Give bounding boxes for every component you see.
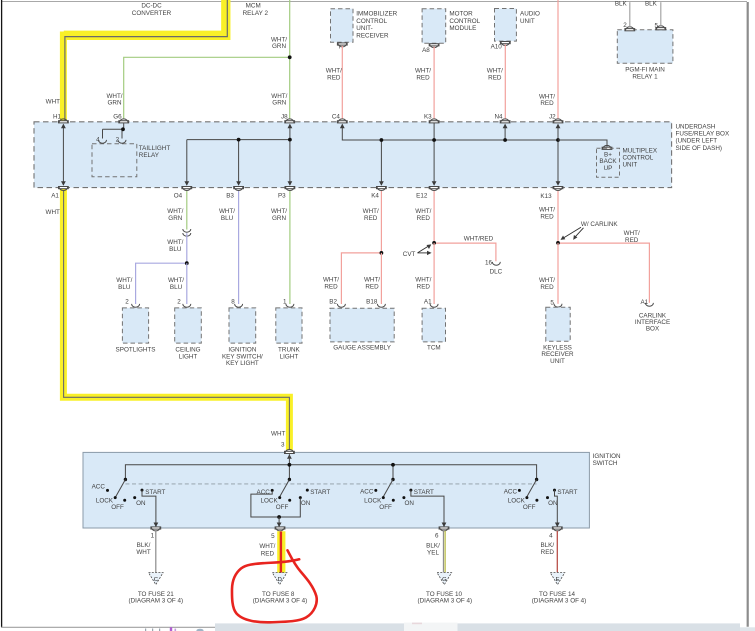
- wire WHT/RED motor control module A8 to K3: [433, 47, 435, 119]
- wire WHT/RED immobilizer pin 7 to C4: [341, 46, 343, 119]
- svg-text:RED: RED: [364, 215, 378, 222]
- svg-text:ON: ON: [136, 500, 146, 507]
- svg-text:CONVERTER: CONVERTER: [132, 10, 172, 17]
- junction K3: [432, 138, 436, 142]
- svg-text:RED: RED: [541, 549, 555, 556]
- svg-text:GRN: GRN: [272, 215, 286, 222]
- label WHT/GRN at J8: [271, 93, 287, 107]
- wire G6 to taillight relay: [103, 123, 124, 138]
- pin 5 of ignition switch: [275, 527, 285, 531]
- wire branch to O4 and B3 inside fuse box: [187, 140, 290, 185]
- wire WHT/RED branch to carlink interface box: [558, 243, 649, 303]
- svg-text:BLK/: BLK/: [426, 543, 440, 550]
- svg-text:SIDE OF DASH): SIDE OF DASH): [676, 145, 723, 152]
- switch pole 2 ACC-ON link wire with output tap: [251, 491, 300, 517]
- svg-text:AUDIO: AUDIO: [520, 11, 540, 18]
- switch pole 1 output to pin 1: [142, 490, 156, 526]
- svg-text:LIGHT: LIGHT: [179, 353, 198, 360]
- svg-text:RED: RED: [540, 284, 554, 291]
- svg-text:ACC: ACC: [360, 489, 374, 496]
- junction G6/taillight relay: [121, 127, 125, 131]
- junction E12 / DLC branch: [432, 241, 436, 245]
- wire H1 to A1 inside fuse box: [62, 125, 64, 186]
- switch pole 4: [504, 478, 578, 511]
- switch pole 3: [360, 478, 434, 511]
- svg-text:ON: ON: [548, 500, 558, 507]
- svg-text:BLK/: BLK/: [137, 542, 151, 549]
- svg-text:RED: RED: [540, 100, 554, 107]
- svg-text:UNIT: UNIT: [550, 358, 565, 365]
- svg-text:5: 5: [271, 533, 275, 540]
- svg-text:W/ CARLINK: W/ CARLINK: [581, 221, 619, 228]
- svg-text:RELAY 1: RELAY 1: [632, 74, 658, 81]
- component U3 MOTOR CONTROL MODULE: [422, 9, 446, 44]
- svg-text:16: 16: [485, 259, 493, 266]
- junction K4: [380, 138, 384, 142]
- svg-text:RELAY 2: RELAY 2: [243, 10, 269, 17]
- svg-text:BLU: BLU: [170, 284, 183, 291]
- svg-text:BLU: BLU: [169, 246, 182, 253]
- svg-text:GAUGE ASSEMBLY: GAUGE ASSEMBLY: [333, 345, 391, 352]
- svg-text:A8: A8: [422, 47, 430, 54]
- component U4 AUDIO UNIT: [495, 9, 517, 42]
- wire J2 to K13 inside fuse box: [557, 125, 559, 186]
- wire WHT/BLU to ceiling light: [186, 263, 188, 304]
- svg-text:START: START: [414, 489, 434, 496]
- svg-text:WHT/: WHT/: [259, 543, 275, 550]
- junction K4 branch: [380, 251, 384, 255]
- svg-text:E12: E12: [416, 192, 428, 199]
- junction WHT/BLU: [185, 261, 189, 265]
- wire BLK at PGM-FI relay pin 2: [629, 2, 631, 27]
- svg-text:O4: O4: [174, 193, 183, 200]
- svg-text:BLK/: BLK/: [540, 542, 554, 549]
- connector E to fuse 14: [550, 573, 565, 585]
- wire WHT/GRN from P3 to trunk light: [289, 191, 291, 304]
- svg-text:K13: K13: [540, 193, 552, 200]
- svg-text:P3: P3: [278, 193, 286, 200]
- component RLY1 PGM-FI MAIN RELAY 1: [617, 30, 673, 64]
- svg-text:(DIAGRAM 3 OF 4): (DIAGRAM 3 OF 4): [418, 598, 473, 605]
- svg-text:RED: RED: [416, 74, 430, 81]
- svg-text:UP: UP: [604, 165, 613, 172]
- svg-text:ACC: ACC: [92, 484, 106, 491]
- svg-text:KEY LIGHT: KEY LIGHT: [226, 360, 259, 367]
- junction K13 / carlink branch: [556, 241, 560, 245]
- junction at B3 drop: [237, 138, 241, 142]
- svg-text:DC-DC: DC-DC: [141, 3, 162, 10]
- svg-text:(UNDER LEFT: (UNDER LEFT: [676, 138, 718, 145]
- switch pole 3 output to pin 6: [411, 490, 444, 526]
- svg-text:K4: K4: [371, 192, 379, 199]
- svg-text:BLU: BLU: [221, 215, 234, 222]
- wire WHT/BLU branch to spotlights: [136, 263, 187, 304]
- svg-text:CONTROL: CONTROL: [356, 18, 387, 25]
- ignition switch mechanical link (dashed): [125, 483, 536, 485]
- svg-text:(DIAGRAM 3 OF 4): (DIAGRAM 3 OF 4): [253, 598, 308, 605]
- svg-text:B18: B18: [366, 298, 378, 305]
- svg-text:1: 1: [151, 532, 155, 539]
- junction on WHT/GRN at MCM feed: [288, 55, 292, 59]
- svg-text:B3: B3: [226, 193, 234, 200]
- svg-text:IMMOBILIZER: IMMOBILIZER: [356, 11, 397, 18]
- svg-text:OFF: OFF: [379, 504, 392, 511]
- svg-text:GRN: GRN: [272, 100, 286, 107]
- svg-text:E: E: [556, 577, 560, 583]
- svg-text:MOTOR: MOTOR: [449, 11, 473, 18]
- svg-text:WHT/RED: WHT/RED: [464, 235, 494, 242]
- junction J2: [556, 138, 560, 142]
- svg-text:DLC: DLC: [490, 268, 503, 275]
- svg-text:C: C: [154, 577, 158, 583]
- svg-text:MULTIPLEX: MULTIPLEX: [623, 148, 658, 155]
- switch pole 4 output to pin 4: [555, 490, 558, 526]
- component B+ BACK UP (multiplex control unit): [597, 148, 620, 177]
- connector C to fuse 21: [149, 573, 164, 585]
- svg-text:J2: J2: [549, 113, 556, 120]
- wire WHT/RED from K4: [380, 191, 382, 253]
- svg-text:WHT: WHT: [271, 430, 285, 437]
- svg-text:ON: ON: [301, 500, 311, 507]
- label MCM RELAY 2: [243, 3, 269, 17]
- svg-text:RECEIVER: RECEIVER: [356, 32, 389, 39]
- svg-text:UNIT: UNIT: [623, 162, 638, 169]
- svg-text:TCM: TCM: [427, 345, 441, 352]
- svg-text:GRN: GRN: [168, 215, 182, 222]
- svg-text:UNIT: UNIT: [520, 18, 535, 25]
- wire WHT/RED from E12: [433, 191, 435, 243]
- svg-text:ACC: ACC: [504, 489, 518, 496]
- svg-text:RED: RED: [625, 237, 639, 244]
- svg-text:5: 5: [550, 300, 554, 307]
- svg-text:BLU: BLU: [118, 284, 131, 291]
- label MULTIPLEX CONTROL UNIT: [623, 148, 658, 169]
- connector G to fuse 10: [437, 573, 452, 585]
- svg-text:WHT: WHT: [46, 99, 60, 106]
- svg-text:START: START: [557, 489, 577, 496]
- pin 6 of ignition switch: [439, 527, 449, 531]
- wire WHT/RED to gauge B18: [380, 253, 382, 304]
- svg-text:RED: RED: [488, 74, 502, 81]
- wire WHT/GRN from O4: [186, 191, 188, 230]
- label DC-DC CONVERTER: [132, 3, 172, 17]
- svg-text:LIGHT: LIGHT: [280, 353, 299, 360]
- svg-text:A1: A1: [51, 193, 59, 200]
- svg-text:CVT: CVT: [403, 251, 416, 258]
- svg-text:MCM: MCM: [246, 3, 261, 10]
- wire WHT/GRN from MCM relay 2: [289, 0, 291, 119]
- svg-text:GRN: GRN: [272, 43, 286, 50]
- svg-text:ON: ON: [405, 500, 415, 507]
- svg-text:RED: RED: [417, 215, 431, 222]
- svg-text:TAILLIGHT: TAILLIGHT: [139, 145, 171, 152]
- svg-text:RED: RED: [365, 284, 379, 291]
- svg-text:4: 4: [549, 533, 553, 540]
- svg-text:RED: RED: [417, 284, 431, 291]
- svg-text:A1: A1: [640, 299, 648, 306]
- svg-text:GRN: GRN: [108, 100, 122, 107]
- svg-text:A1: A1: [424, 298, 432, 305]
- svg-text:2: 2: [125, 298, 129, 305]
- svg-text:RED: RED: [540, 214, 554, 221]
- wire WHT from A1 to ignition switch (highlighted): [64, 191, 290, 449]
- svg-text:N4: N4: [494, 113, 503, 120]
- svg-text:BOX: BOX: [646, 325, 660, 332]
- component U2 IMMOBILIZER CONTROL UNIT-RECEIVER: [331, 9, 354, 43]
- label CARLINK INTERFACE BOX: [635, 312, 670, 332]
- svg-text:RED: RED: [327, 74, 341, 81]
- wire WHT/RED branch to DLC pin 16: [434, 243, 496, 261]
- highlight: yellow marker on WHT/RED wire to fuse 8: [277, 531, 285, 573]
- component UNDERDASH FUSE/RELAY BOX: [34, 122, 672, 188]
- svg-text:ACC: ACC: [257, 489, 271, 496]
- wire WHT/RED to TCM A1: [433, 243, 435, 304]
- component RLY2 TAILLIGHT RELAY: [92, 144, 137, 177]
- svg-text:(DIAGRAM 3 OF 4): (DIAGRAM 3 OF 4): [129, 598, 184, 605]
- ignition switch internal bus: [125, 465, 536, 480]
- component SW1 IGNITION SWITCH: [83, 452, 589, 528]
- switch pole 2: [257, 478, 331, 511]
- wire K3 to E12 inside fuse box: [433, 123, 435, 185]
- switch pole 1: [92, 478, 166, 511]
- svg-text:6: 6: [435, 532, 439, 539]
- svg-text:OFF: OFF: [276, 504, 289, 511]
- svg-text:2: 2: [177, 298, 181, 305]
- wire feed into ignition switch bus: [288, 454, 290, 465]
- wire WHT/BLU from connector to junction: [186, 233, 188, 263]
- annotation: red marker line on WHT/RED wire: [280, 532, 282, 574]
- svg-text:UNIT-: UNIT-: [356, 25, 372, 32]
- svg-text:SPOTLIGHTS: SPOTLIGHTS: [116, 346, 156, 353]
- svg-text:RED: RED: [324, 284, 338, 291]
- svg-text:D: D: [278, 577, 282, 583]
- svg-text:BLK: BLK: [615, 1, 628, 8]
- svg-text:BLK: BLK: [645, 1, 658, 8]
- svg-text:START: START: [310, 489, 330, 496]
- wire J8 to P3 inside fuse box: [289, 125, 291, 186]
- svg-text:3: 3: [281, 442, 285, 449]
- wire K4 drop inside fuse box: [380, 140, 382, 185]
- svg-text:OFF: OFF: [523, 504, 536, 511]
- svg-text:WHT: WHT: [46, 209, 60, 216]
- wire BLK/RED to fuse 14: [556, 531, 558, 572]
- svg-text:START: START: [145, 489, 165, 496]
- svg-text:CONTROL: CONTROL: [449, 18, 480, 25]
- svg-text:B2: B2: [329, 298, 337, 305]
- junction at J8 drop: [288, 138, 292, 142]
- wire N4 entry inside fuse box: [504, 125, 506, 141]
- svg-text:MODULE: MODULE: [449, 25, 476, 32]
- wire WHT/RED from PGM-FI main relay to J2: [557, 0, 559, 119]
- annotation: red hand-drawn circle around TO FUSE 8 (single stroke, start/end crossing): [232, 550, 317, 622]
- svg-text:RED: RED: [261, 551, 275, 558]
- wire C4 bus inside fuse box: [342, 125, 558, 141]
- svg-text:RELAY: RELAY: [139, 152, 160, 159]
- svg-text:OFF: OFF: [111, 504, 124, 511]
- junction N4: [503, 138, 507, 142]
- wire WHT/RED from K13: [557, 191, 559, 243]
- wire BLK/YEL to fuse 10: [442, 531, 444, 572]
- label WHT/GRN at G6: [106, 93, 122, 107]
- pin 4 of ignition switch: [552, 527, 562, 531]
- svg-text:PGM-FI MAIN: PGM-FI MAIN: [625, 66, 665, 73]
- svg-text:YEL: YEL: [427, 550, 439, 557]
- switch pole 2 output to pin 5: [278, 517, 280, 526]
- wire WHT/RED branch to gauge B2: [341, 253, 381, 304]
- wire WHT from DC-DC converter to H1 (highlighted): [65, 0, 227, 121]
- pin 1 of ignition switch: [151, 527, 161, 531]
- svg-text:SWITCH: SWITCH: [593, 460, 618, 467]
- wire BLK/WHT to fuse 21: [155, 531, 157, 572]
- wire branch to multiplex B+ backup: [558, 140, 607, 147]
- inline connector on O4 wire: [183, 229, 191, 236]
- svg-text:G: G: [442, 577, 447, 583]
- svg-text:FUSE/RELAY BOX: FUSE/RELAY BOX: [676, 131, 730, 138]
- svg-text:UNDERDASH: UNDERDASH: [676, 123, 716, 130]
- wire WHT/RED audio unit A10 to N4: [504, 44, 506, 118]
- wire WHT/RED to keyless receiver unit: [557, 243, 559, 304]
- svg-text:WHT: WHT: [136, 549, 150, 556]
- wire BLK at PGM-FI relay pin 5: [660, 2, 662, 26]
- svg-text:H1: H1: [53, 113, 62, 120]
- svg-text:(DIAGRAM 3 OF 4): (DIAGRAM 3 OF 4): [532, 598, 587, 605]
- connector D to fuse 8: [272, 573, 287, 585]
- wire WHT/GRN branch to G6: [124, 57, 290, 118]
- svg-text:CONTROL: CONTROL: [623, 155, 654, 162]
- highlight: yellow marker on WHT wire route from DC-DC converter to ignition switch: [63, 0, 289, 450]
- label WHT/GRN above junction: [271, 36, 287, 50]
- svg-text:A10: A10: [491, 44, 503, 51]
- wire WHT/BLU from B3 to ignition key switch: [238, 191, 240, 304]
